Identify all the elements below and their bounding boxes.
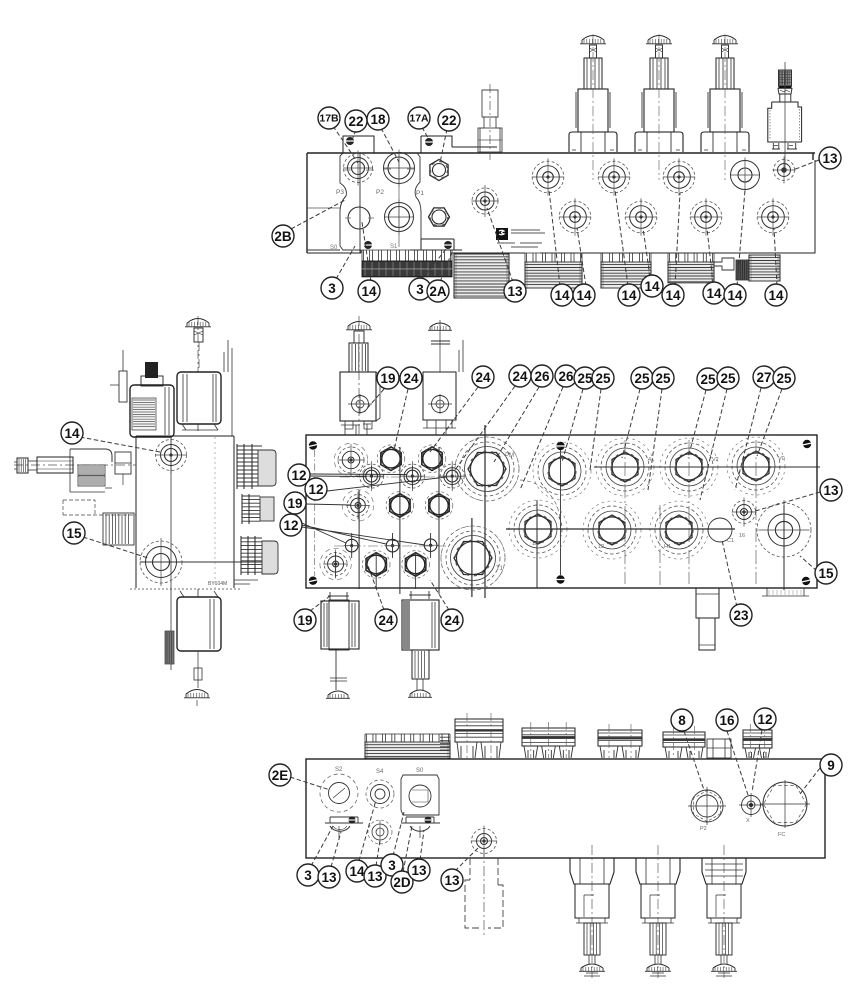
svg-text:14: 14 (706, 286, 722, 301)
svg-text:25: 25 (577, 371, 593, 386)
svg-text:8: 8 (678, 713, 686, 728)
svg-text:3: 3 (416, 282, 424, 297)
leader 3 bottom b (393, 812, 404, 856)
balloon 13 callout (504, 280, 526, 302)
leader 13 bottom c (420, 830, 424, 860)
bottom view disc stack E (743, 724, 772, 758)
svg-text:24: 24 (512, 369, 528, 384)
leader 14 c (615, 190, 628, 286)
svg-text:22: 22 (348, 114, 363, 129)
row1 long centerline (594, 466, 820, 468)
leader 24 c (455, 386, 515, 470)
port mid ringed (384, 200, 414, 235)
side port 15 extension line (140, 561, 269, 563)
svg-text:12: 12 (291, 468, 306, 483)
svg-text:19: 19 (297, 613, 312, 628)
balloon 24 callout (400, 367, 422, 389)
stephens hydraulics logo (496, 228, 545, 247)
balloon 14 callout (573, 284, 595, 306)
leader 24 bottom a (366, 560, 384, 610)
balloon 14 callout (61, 422, 83, 444)
svg-text:13: 13 (823, 483, 839, 498)
bottom view disc stack A (455, 713, 503, 758)
svg-text:14: 14 (361, 284, 377, 299)
side view top wing nut and stem (185, 316, 211, 372)
corner bolt BL (309, 577, 318, 585)
bolt port b2 (385, 536, 401, 555)
leader 26 a (494, 387, 539, 462)
leader 12 bottom (752, 730, 762, 792)
svg-text:2B: 2B (274, 229, 292, 244)
leader 25 e (688, 390, 706, 458)
leader 18 (381, 128, 399, 162)
balloon 25 callout (717, 367, 739, 389)
balloon 25 callout (773, 367, 795, 389)
svg-text:12: 12 (308, 482, 323, 497)
svg-text:S1: S1 (390, 244, 398, 250)
svg-text:2E: 2E (272, 768, 289, 783)
leader 12 c (302, 523, 425, 545)
hex plug mid (429, 208, 450, 226)
balloon 24 callout (375, 609, 397, 631)
balloon 2E callout (269, 764, 291, 786)
bottom clamp bolt left (363, 241, 373, 249)
svg-text:25: 25 (655, 371, 671, 386)
tie rod line mid (560, 450, 562, 575)
bottom port 13 (471, 826, 497, 857)
main hex row2 c3 (425, 492, 453, 520)
main view small port row centerline a (340, 476, 462, 478)
row centerline ticks top view (344, 169, 414, 218)
bottom small ringed port (368, 820, 392, 844)
leader 14 f (707, 228, 713, 284)
balloon 27 callout (753, 366, 775, 388)
section solid line PM column (484, 425, 486, 598)
svg-text:14: 14 (576, 288, 592, 303)
svg-text:14: 14 (727, 288, 743, 303)
leader 19 bottom (310, 596, 330, 611)
left section solid column lines (359, 447, 439, 594)
balloon 13 callout (819, 147, 841, 169)
left edge dash-dot line (314, 450, 316, 576)
port A3 row1 (663, 158, 695, 196)
corner bolt BR (802, 577, 811, 585)
svg-text:14: 14 (554, 288, 570, 303)
balloon 22 callout (438, 109, 460, 131)
svg-text:BY104M: BY104M (208, 581, 227, 587)
balloon 13 callout (820, 479, 842, 501)
svg-text:25: 25 (595, 371, 611, 386)
svg-text:15: 15 (818, 566, 834, 581)
port T3 top-left (343, 151, 373, 186)
leader 24 a (394, 389, 408, 450)
balloon 25 callout (652, 367, 674, 389)
port S1 ringed right (757, 500, 811, 560)
leader 24 b (430, 387, 478, 452)
side view right solenoid coil (177, 340, 232, 436)
leader 19 left (306, 504, 351, 505)
leader 2A (440, 252, 452, 282)
leader 15 side (83, 537, 148, 558)
cartridge stack E discs (749, 255, 780, 281)
bottom solenoid stem 3 (702, 845, 746, 978)
side view bottom hatched bar (165, 631, 174, 664)
solenoid valve tower 3 (701, 34, 749, 180)
leader 14 d (643, 228, 650, 277)
balloon 24 callout (441, 609, 463, 631)
bottom view small hex pair (707, 739, 731, 758)
side view internal hatched block (103, 513, 134, 545)
balloon 14 callout (618, 284, 640, 306)
balloon 17B callout (318, 107, 340, 129)
corner bolt TL (309, 441, 318, 449)
bottom cartridge coil B below main view (402, 591, 439, 697)
cartridge stack B (525, 253, 582, 288)
svg-text:13: 13 (411, 863, 427, 878)
leader 14 h (774, 228, 777, 286)
section line through column 2 top view (398, 153, 400, 247)
row2 long centerline (506, 528, 735, 530)
balloon 25 callout (574, 367, 596, 389)
svg-text:19: 19 (380, 371, 395, 386)
leader 3 left (336, 246, 355, 279)
relief valve cartridge top right (768, 62, 802, 168)
coil disc stack A (454, 254, 509, 298)
leader 25 g (757, 389, 782, 456)
bottom right port 9 big (760, 780, 810, 838)
balloon 18 callout (367, 108, 389, 130)
balloon 2A callout (427, 280, 449, 302)
small port a3 (439, 461, 465, 491)
svg-text:15: 15 (532, 541, 538, 547)
left section short column ticks (336, 466, 453, 589)
leader 16 (727, 731, 748, 795)
svg-text:23: 23 (733, 608, 749, 623)
side view bottom solenoid coil (177, 589, 221, 651)
port gauge 13 mid (471, 185, 498, 217)
svg-text:14: 14 (621, 288, 637, 303)
main hex row1 c2 (377, 445, 405, 473)
main hex row1 c3 (418, 445, 446, 473)
hex port r2 a (509, 500, 567, 558)
bottom cartridge coil A below main view (321, 592, 359, 698)
balloon 2B callout (272, 225, 294, 247)
svg-text:X: X (746, 818, 750, 824)
port B2 row2 (625, 198, 657, 236)
foot marks bottom right of main view (762, 588, 809, 596)
balloon 22 callout (345, 110, 367, 132)
main view column centerlines right (625, 440, 756, 584)
port S4 bottom view (366, 769, 394, 808)
balloon 14 callout (641, 275, 663, 297)
balloon 15 callout (815, 562, 837, 584)
hex port V2 r1 (660, 438, 718, 496)
svg-text:S4: S4 (376, 769, 384, 775)
svg-text:3: 3 (304, 868, 312, 883)
svg-text:12: 12 (598, 544, 604, 550)
main hex row3 c3 (402, 551, 430, 579)
bottom view body outline (306, 759, 825, 858)
top bracket clamp left (343, 136, 374, 153)
svg-text:P3: P3 (336, 189, 344, 196)
balloon 14 callout (662, 284, 684, 306)
leader 13 bottom a (331, 832, 341, 867)
svg-text:2D: 2D (393, 875, 411, 890)
bolt port b1 (344, 536, 360, 555)
solenoid valve tower 2 (635, 34, 683, 180)
svg-text:S0: S0 (416, 768, 424, 774)
hex port r2 b (583, 501, 641, 559)
leader 14 bottom (359, 800, 376, 861)
svg-text:25: 25 (700, 372, 716, 387)
dash-dot fitting below bottom view (465, 830, 503, 935)
section line through column 1 top view (359, 153, 361, 253)
balloon 15 callout (63, 522, 85, 544)
leader 15 main (800, 556, 817, 571)
leader 14 a (549, 190, 560, 286)
svg-text:12: 12 (283, 518, 298, 533)
top view left segment plate outline (307, 153, 421, 253)
side view left fitting assembly (14, 449, 136, 492)
balloon 13 callout (364, 865, 386, 887)
section solid line T1 column (471, 518, 473, 597)
balloon 3 callout (297, 864, 319, 886)
svg-text:17B: 17B (319, 113, 339, 125)
big dashed circle between (520, 480, 560, 520)
small port a2 (400, 461, 426, 491)
side port 14 top (155, 437, 186, 474)
balloon 26 callout (531, 365, 553, 387)
svg-text:17A: 17A (409, 113, 429, 125)
svg-text:14: 14 (349, 864, 365, 879)
balloon 3 callout (409, 278, 431, 300)
svg-text:13: 13 (822, 151, 838, 166)
leader 23 (722, 540, 737, 607)
side view bracket small parts (63, 452, 136, 515)
big hex T1 outer dashed (441, 526, 505, 590)
bottom clamp right (401, 816, 440, 838)
main hex row2 c2 (386, 492, 414, 520)
balloon 19 callout (294, 609, 316, 631)
leader 14 side (80, 437, 160, 452)
svg-text:16: 16 (719, 713, 735, 728)
leader 13 bottom b (376, 840, 380, 866)
leader 22 left (352, 130, 356, 140)
solid vertical line x784 (783, 505, 785, 590)
bottom view disc stack B (522, 722, 575, 758)
side view right cartridge stack 3 (234, 536, 278, 584)
svg-text:13: 13 (444, 873, 460, 888)
svg-text:25: 25 (776, 371, 792, 386)
leader 12 b (327, 477, 447, 491)
hex port V0 r1 (727, 437, 785, 495)
side port 15 (140, 538, 182, 586)
port large upper (383, 150, 414, 187)
balloon 8 callout (671, 709, 693, 731)
svg-text:13: 13 (321, 870, 337, 885)
svg-text:V0: V0 (778, 456, 785, 462)
balloon 9 callout (820, 754, 842, 776)
svg-text:16: 16 (739, 533, 745, 539)
balloon 12 callout (280, 514, 302, 536)
leader 14 g (737, 190, 745, 286)
main port row2 c1 outer arcs (342, 490, 373, 521)
balloon 13 callout (318, 866, 340, 888)
port B4 row2 (757, 198, 789, 236)
leader 9 (800, 768, 820, 794)
balloon 2D callout (391, 871, 413, 893)
svg-text:P1: P1 (416, 190, 424, 197)
balloon 14 callout (551, 284, 573, 306)
bottom view fin stack left (365, 734, 450, 758)
leader 22 right (440, 129, 447, 163)
svg-text:14: 14 (64, 426, 80, 441)
cartridge stack E with dark block (736, 260, 749, 280)
cartridge stack C (601, 253, 651, 288)
balloon 16 callout (716, 709, 738, 731)
tie rod bolt bottom mid (556, 575, 565, 583)
svg-text:4: 4 (648, 457, 651, 463)
leader 3 bottom a (311, 826, 333, 866)
svg-text:FC: FC (778, 832, 785, 838)
balloon 19 callout (284, 492, 306, 514)
solenoid valve tower 1 (569, 34, 617, 180)
bottom view disc stack C (598, 724, 642, 758)
leader 3 mid (421, 248, 447, 280)
corner bolt TR (803, 440, 812, 448)
top clamp bolts above main view left (341, 424, 371, 435)
balloon 25 callout (697, 368, 719, 390)
bottom clamp bracket right (410, 239, 462, 250)
port 23 plain circle (708, 518, 734, 544)
leader 25 b (590, 389, 601, 470)
leader 8 (684, 731, 704, 790)
svg-text:14: 14 (768, 288, 784, 303)
leader 25 a (562, 389, 583, 462)
main hex row3 c2 (362, 551, 390, 579)
balloon 25 callout (592, 367, 614, 389)
side view body outline (130, 436, 240, 589)
big hex PM outer dashed (455, 437, 519, 501)
big hex T1 (441, 526, 505, 590)
leader 2D (403, 826, 412, 872)
balloon 3 callout (381, 854, 403, 876)
svg-text:19: 19 (287, 496, 302, 511)
side view left solenoid with connector (110, 350, 174, 437)
main port row2 c1 (346, 492, 370, 520)
leader 14 b (577, 228, 586, 286)
hex port 14 r1 (596, 438, 654, 496)
svg-text:P2: P2 (376, 189, 384, 196)
svg-text:13: 13 (367, 869, 383, 884)
leader 13 mid (487, 208, 513, 282)
port B3 row2 (690, 198, 722, 236)
pilot bracket above main view (423, 320, 463, 435)
leader 17A (422, 127, 428, 138)
svg-text:27: 27 (756, 370, 771, 385)
balloon 24 callout (509, 365, 531, 387)
svg-text:22: 22 (441, 113, 456, 128)
leader 19 main (364, 389, 384, 412)
port 13 main (732, 498, 757, 527)
leader 14 left (362, 222, 371, 282)
bottom clamp left (325, 816, 363, 838)
DIN connector fin block (dark) (362, 250, 452, 277)
dashed pilot element above body (478, 84, 502, 160)
side view right cartridge stack 1 (237, 444, 276, 489)
svg-text:T1: T1 (496, 566, 504, 572)
svg-text:25: 25 (634, 371, 650, 386)
port P3 open (348, 207, 370, 229)
balloon 12 callout (754, 708, 776, 730)
balloon 25 callout (631, 367, 653, 389)
hex plug upper (430, 160, 448, 181)
balloon 24 callout (472, 366, 494, 388)
main view body outline (306, 435, 817, 588)
svg-text:24: 24 (475, 370, 491, 385)
leader 12 a (310, 474, 406, 477)
main port row1 c1 outer arcs (334, 443, 367, 476)
leader 13 bottom d (455, 846, 480, 871)
section solid line row2a column (536, 500, 538, 588)
balloon 14 callout (724, 284, 746, 306)
balloon 14 callout (765, 284, 787, 306)
balloon 13 callout (441, 869, 463, 891)
balloon 14 callout (346, 860, 368, 882)
bolt port b3 (423, 536, 439, 555)
hex port H1 r2 (650, 501, 708, 559)
svg-text:26: 26 (558, 369, 574, 384)
svg-text:12: 12 (757, 712, 772, 727)
svg-text:18: 18 (370, 112, 386, 127)
leader 2E (290, 777, 330, 790)
svg-text:13: 13 (507, 284, 523, 299)
port S0 bottom view with bracket (401, 768, 439, 815)
side view right cartridge stack 2 (242, 494, 274, 524)
svg-text:9: 9 (827, 758, 835, 773)
top view manifold body outline (307, 153, 815, 253)
balloon 13 callout (408, 859, 430, 881)
bottom right port 8 hex (688, 787, 726, 832)
hex port 12 r1 (533, 442, 591, 500)
svg-text:3: 3 (328, 281, 336, 296)
side view faint inner vertical (214, 437, 216, 588)
leader 13 right (793, 160, 819, 170)
main port row3 c1 outer arcs (320, 548, 351, 579)
svg-text:S0: S0 (330, 245, 338, 251)
balloon 14 callout (358, 280, 380, 302)
port large row1 right (730, 158, 760, 193)
svg-text:P2: P2 (700, 826, 707, 832)
bottom solenoid stem 1 (570, 845, 614, 978)
balloon 12 callout (288, 464, 310, 486)
bottom view small side piece (440, 734, 450, 750)
balloon 19 callout (377, 367, 399, 389)
cartridge stack D (668, 253, 714, 283)
svg-text:25: 25 (720, 371, 736, 386)
leader 26 b (520, 387, 563, 490)
svg-text:S2: S2 (335, 767, 343, 773)
svg-text:C1: C1 (727, 538, 734, 544)
leader 24 bottom b (430, 580, 449, 610)
bottom view disc stack D (663, 726, 705, 758)
leader 17B (333, 126, 358, 163)
svg-text:24: 24 (378, 613, 394, 628)
balloon 23 callout (730, 604, 752, 626)
small port a1 (359, 461, 385, 491)
leader 2B (291, 200, 345, 229)
balloon 3 callout (321, 277, 343, 299)
